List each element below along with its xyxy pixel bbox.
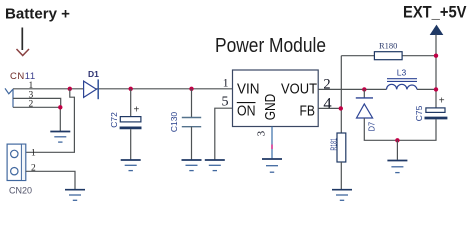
wire C75 bottom xyxy=(397,119,436,140)
wire FB pin4 xyxy=(318,107,341,109)
svg-text:2: 2 xyxy=(29,100,34,110)
ground C72 xyxy=(121,160,141,171)
svg-text:1: 1 xyxy=(223,78,229,90)
wire CN11 pin3 xyxy=(13,98,61,107)
node junction output xyxy=(434,87,438,91)
node junction C72 xyxy=(129,87,133,91)
svg-text:L3: L3 xyxy=(397,68,407,78)
svg-text:EXT_+5V: EXT_+5V xyxy=(403,4,467,22)
resistor R180 xyxy=(374,52,402,60)
wire CN11 pin2 xyxy=(13,106,60,108)
wire main rail left xyxy=(13,88,233,90)
wire CN20 pin2 xyxy=(26,171,75,189)
node junction D7 top xyxy=(362,87,366,91)
diode D7 xyxy=(356,98,373,118)
svg-text:ON: ON xyxy=(237,103,256,120)
svg-text:C75: C75 xyxy=(414,105,424,121)
svg-text:Power Module: Power Module xyxy=(215,35,326,57)
svg-text:C130: C130 xyxy=(169,112,179,133)
wire feedback vertical xyxy=(340,56,342,133)
wire C72 bottom xyxy=(130,129,132,160)
svg-text:CN20: CN20 xyxy=(9,186,32,196)
svg-text:GND: GND xyxy=(262,94,279,121)
wire CN11 ground stub xyxy=(59,107,61,131)
wire GND pin3 xyxy=(271,127,273,159)
wire VOUT rail xyxy=(318,88,386,90)
svg-text:1: 1 xyxy=(29,81,34,91)
node junction CN11 pins 2-3 xyxy=(58,105,62,109)
wire ON pin5 xyxy=(215,108,233,160)
ground CN11 xyxy=(50,132,70,143)
op-amp U1 power module box xyxy=(233,70,319,127)
wire output vertical xyxy=(435,35,437,108)
wire arrow shaft xyxy=(21,28,23,51)
ground C130 xyxy=(182,160,202,171)
node power flag EXT_+5V xyxy=(431,26,443,35)
ground GND pin3 xyxy=(262,159,282,172)
node arrow head xyxy=(17,49,30,56)
ground R181 xyxy=(332,190,352,201)
wire C72 top xyxy=(130,89,132,117)
wire top branch R180 xyxy=(341,55,436,57)
svg-text:4: 4 xyxy=(323,94,331,113)
svg-text:FB: FB xyxy=(300,103,316,120)
capacitor C75 xyxy=(425,96,448,119)
wire L3 to output node xyxy=(417,88,436,90)
connector CN11 xyxy=(5,88,13,107)
wire C130 bottom xyxy=(191,127,193,160)
wire C130 top xyxy=(191,89,193,118)
ground D7 C75 xyxy=(387,161,407,173)
node junction ground D7 C75 xyxy=(395,138,399,142)
capacitor C130 xyxy=(182,118,201,127)
inductor L3 xyxy=(387,79,418,90)
node magenta tick pin3 xyxy=(271,145,273,150)
svg-text:R180: R180 xyxy=(379,41,397,51)
svg-text:Battery +: Battery + xyxy=(5,7,70,23)
ground CN20 xyxy=(65,190,85,201)
svg-text:2: 2 xyxy=(323,77,330,93)
svg-text:VIN: VIN xyxy=(237,81,260,98)
ground ON pin5 xyxy=(205,160,225,171)
svg-text:2: 2 xyxy=(31,164,36,174)
svg-text:1: 1 xyxy=(31,148,36,158)
svg-text:+: + xyxy=(134,105,140,116)
resistor R181 xyxy=(337,133,346,162)
diode D1 xyxy=(84,79,99,99)
svg-text:D1: D1 xyxy=(88,69,99,79)
connector CN20 xyxy=(7,144,26,180)
svg-text:3: 3 xyxy=(255,130,267,136)
node junction FB xyxy=(339,106,343,110)
svg-text:5: 5 xyxy=(222,95,229,110)
svg-text:VOUT: VOUT xyxy=(281,81,317,98)
svg-text:C72: C72 xyxy=(109,112,119,128)
wire D7 bottom xyxy=(364,118,397,140)
wire battery drop to CN20 xyxy=(26,89,75,153)
capacitor C72 xyxy=(120,105,142,128)
node junction R180 right xyxy=(434,54,438,58)
wire ground stub D7 C75 xyxy=(396,140,398,160)
node junction battery drop xyxy=(68,87,72,91)
node junction C130 xyxy=(189,87,193,91)
wire R181 bottom xyxy=(340,162,342,190)
svg-text:+: + xyxy=(439,96,445,107)
wire D7 top xyxy=(363,89,365,98)
node ON label xyxy=(237,103,256,120)
svg-text:D7: D7 xyxy=(367,122,377,132)
